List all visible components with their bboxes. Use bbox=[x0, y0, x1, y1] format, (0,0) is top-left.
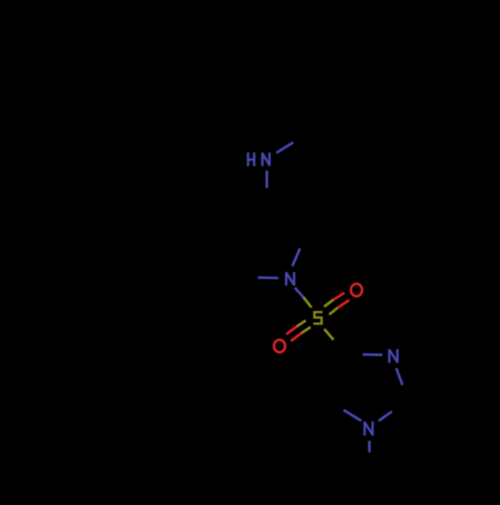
bond N-C3 pyrrolidine (half near N) bbox=[265, 171, 268, 189]
O upper label bbox=[351, 284, 362, 297]
S=O lower double bond line 1 bbox=[297, 320, 306, 326]
bond N1-S blue half bbox=[295, 288, 304, 297]
bond N1-C5 imidazole (half near N1) bbox=[344, 410, 362, 421]
bond N1-C5 (half near N1) bbox=[258, 276, 279, 279]
bond N1-C2 (half near N1) bbox=[292, 248, 300, 266]
pyrrolidine N1 label bbox=[286, 272, 294, 286]
bond N3=C2 (half near N3) bbox=[396, 368, 402, 385]
bond C4-N3 (half near N3) bbox=[363, 353, 383, 356]
O lower label bbox=[274, 340, 285, 353]
sulfonyl S label bbox=[313, 312, 322, 324]
bond S-C4 imidazole (half near S) bbox=[324, 329, 333, 340]
imidazole N3 label bbox=[389, 349, 397, 363]
bond N-CH3 (amine methyl, half near N) bbox=[276, 142, 293, 152]
S=O lower double bond line 2 bbox=[302, 327, 311, 333]
N glyph (amine N) bbox=[261, 153, 263, 167]
S=O upper double bond line 1 bbox=[324, 300, 333, 307]
H glyph bbox=[247, 153, 249, 167]
bond C2-N1 imidazole (half near N1) bbox=[379, 412, 392, 421]
S=O upper double bond line 2 bbox=[329, 308, 337, 315]
imidazole N1 label bbox=[365, 422, 373, 436]
bond N1-S sulfur half bbox=[303, 297, 311, 307]
bond N1-CH3 imidazole (half near N1) bbox=[368, 441, 371, 453]
amine N-H label "HN" bbox=[248, 153, 270, 167]
